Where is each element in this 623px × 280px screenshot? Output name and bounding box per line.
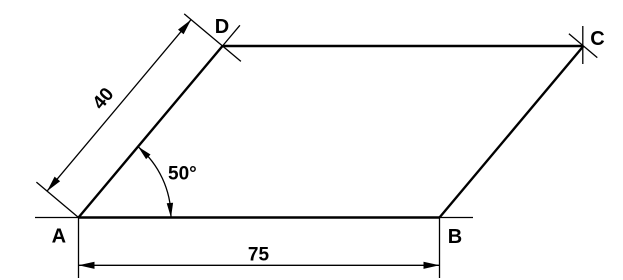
svg-text:D: D xyxy=(215,16,229,38)
arrowhead 75 right xyxy=(424,262,440,269)
svg-text:75: 75 xyxy=(248,245,270,266)
construction tick diagonal at C xyxy=(569,34,597,58)
extension line below B xyxy=(439,218,441,279)
side DC xyxy=(223,45,584,47)
construction line right of B xyxy=(440,217,474,219)
construction extension of AD past D xyxy=(223,25,240,46)
witness tick at A for 40 dimension xyxy=(36,182,78,217)
dimension line 40 xyxy=(47,20,191,192)
witness tick at D for 40 dimension xyxy=(184,14,241,62)
svg-text:C: C xyxy=(590,28,604,50)
arrowhead arc lower xyxy=(167,203,173,218)
side AD xyxy=(79,46,223,218)
arrowhead 75 left xyxy=(79,262,95,269)
arrowhead arc upper xyxy=(138,147,151,160)
side AB xyxy=(79,216,440,218)
construction tick vertical at C xyxy=(582,26,584,64)
arrowhead 40 upper xyxy=(178,20,191,35)
svg-text:B: B xyxy=(448,226,462,248)
side BC xyxy=(440,46,584,218)
svg-text:40: 40 xyxy=(89,84,119,114)
extension line below A xyxy=(78,218,80,279)
svg-text:A: A xyxy=(52,225,66,247)
svg-text:50°: 50° xyxy=(168,164,197,185)
arrowhead 40 lower xyxy=(47,177,60,192)
angle arc 50 degrees xyxy=(138,147,171,218)
dimension line 75 xyxy=(79,264,440,266)
construction line left of A xyxy=(35,217,79,219)
